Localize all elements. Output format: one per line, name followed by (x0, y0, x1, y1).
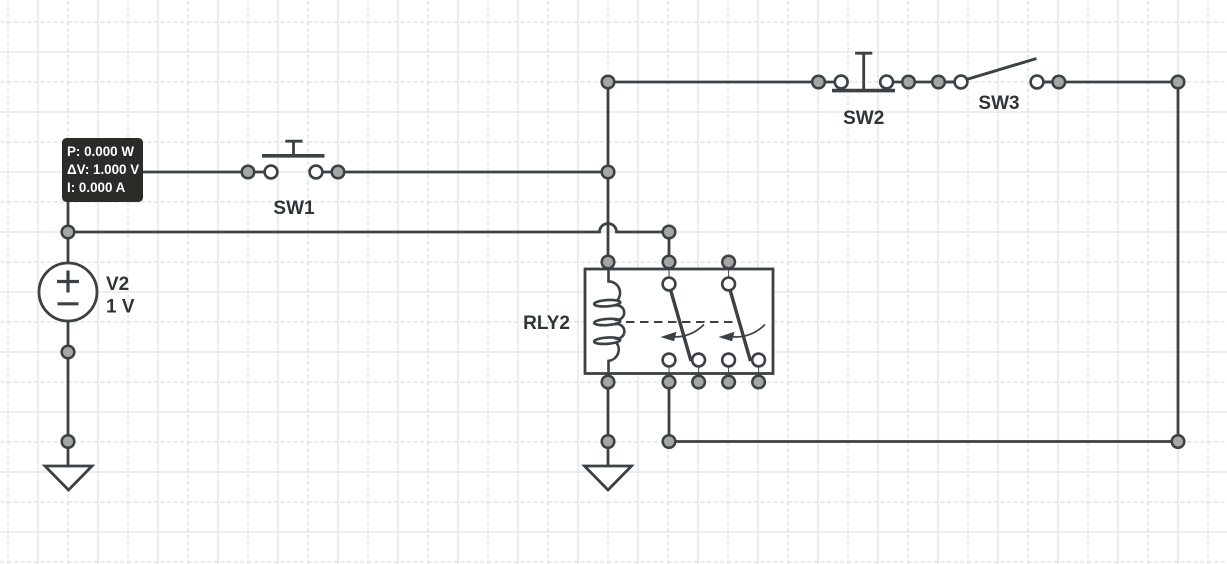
svg-text:V2: V2 (106, 274, 129, 295)
wire (67, 321, 70, 466)
junction (602, 166, 615, 179)
svg-text:1 V: 1 V (106, 297, 135, 318)
measurement label box P/dV/I (62, 138, 143, 202)
wire (338, 171, 608, 174)
junction (602, 376, 615, 389)
relay contact 2 pin top (728, 262, 730, 284)
junction (602, 435, 615, 448)
junction (62, 226, 75, 239)
junction (692, 376, 705, 389)
pushbutton SW2 (819, 53, 909, 90)
svg-text:RLY2: RLY2 (523, 313, 570, 334)
relay actuation arrow 2 (731, 325, 765, 337)
junction (722, 256, 735, 269)
junction (602, 256, 615, 269)
relay contact 1 blade (670, 288, 691, 361)
junction (663, 376, 676, 389)
voltage source V2 (39, 263, 97, 321)
junction (752, 376, 765, 389)
wire (1177, 82, 1180, 442)
junction (1053, 76, 1066, 89)
wire (608, 81, 819, 84)
wire (607, 382, 610, 466)
relay bottom pins (668, 360, 670, 382)
relay contact 2 blade (730, 288, 751, 361)
wire with hop over vertical wire (68, 224, 669, 233)
pushbutton SW1 (248, 141, 338, 178)
junction (332, 166, 345, 179)
wire (669, 440, 1178, 443)
wire (909, 81, 962, 84)
relay RLY2 (585, 262, 773, 382)
relay contact 1 pin top (668, 262, 670, 284)
junction (722, 376, 735, 389)
relay terminal circles (663, 278, 676, 291)
junction (62, 346, 75, 359)
svg-text:I: 0.000 A: I: 0.000 A (67, 180, 126, 195)
wire (607, 82, 610, 262)
junction (812, 76, 825, 89)
svg-text:ΔV: 1.000 V: ΔV: 1.000 V (67, 162, 139, 177)
junction (663, 256, 676, 269)
relay linkage dashed line (626, 321, 734, 323)
switch SW3 (939, 59, 1059, 89)
relay actuation arrow 1 (670, 325, 704, 337)
wire (668, 382, 671, 442)
wire (68, 171, 248, 174)
junction (1172, 435, 1185, 448)
wire (1037, 81, 1178, 84)
relay RLY2 coil L (594, 262, 624, 382)
junction (932, 76, 945, 89)
svg-text:SW3: SW3 (978, 93, 1019, 114)
wire (668, 232, 671, 262)
junction (242, 166, 255, 179)
svg-text:SW2: SW2 (843, 108, 884, 129)
junction (902, 76, 915, 89)
svg-text:P: 0.000 W: P: 0.000 W (67, 144, 134, 159)
ground (left) (45, 466, 92, 490)
junction (1172, 76, 1185, 89)
wire (67, 172, 70, 263)
svg-text:SW1: SW1 (273, 198, 315, 219)
junction (602, 76, 615, 89)
junction (62, 435, 75, 448)
junction (663, 435, 676, 448)
ground (right) (585, 466, 632, 490)
junction (663, 226, 676, 239)
